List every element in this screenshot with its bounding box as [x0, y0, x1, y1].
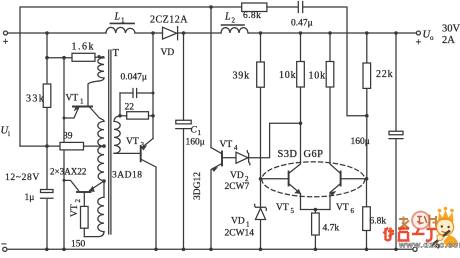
svg-text:VT: VT [70, 204, 80, 217]
transistor VT1 emitter lead with arrow [64, 108, 79, 118]
watermark mascot arm and stick [432, 231, 451, 246]
svg-text:1: 1 [246, 221, 250, 229]
svg-text:1: 1 [121, 17, 125, 25]
svg-text:2CW14: 2CW14 [225, 229, 255, 239]
transistor VT5 collector lead [289, 123, 301, 173]
resistor 150 [81, 206, 89, 228]
node 33k bottom / 39 / 1u / top-rail return [45, 144, 49, 148]
svg-text:0.47μ: 0.47μ [291, 19, 313, 29]
transistor VT2 emitter arrow [89, 186, 94, 191]
svg-text:i: i [8, 130, 10, 138]
svg-text:3DG12: 3DG12 [193, 172, 203, 200]
node main rail / C1 [182, 31, 186, 35]
wire 39 node horizontal [20, 145, 60, 147]
svg-text:L: L [224, 12, 231, 23]
label input minus sign [1, 243, 6, 245]
wire top rail left segment [20, 7, 242, 146]
resistor 22 [127, 112, 149, 119]
wire 22 left lead [120, 115, 127, 117]
inductor L2 [221, 28, 248, 33]
node main rail / 160u [394, 31, 398, 35]
node VT6 base / 22k / 6.8k [365, 177, 369, 181]
svg-text:22k: 22k [376, 69, 393, 80]
wire top rail right segment with corner down to node [303, 7, 367, 116]
node 0.47u return / 22k bottom [365, 114, 369, 118]
node main rail / 22k [365, 31, 369, 35]
wire x211 from top rail to VT4 collector [210, 7, 212, 148]
node 33k top / 1.6k branch [45, 56, 49, 60]
wire VT4 base to VD2 [222, 157, 236, 159]
transistor VT4 emitter arrow [212, 167, 217, 171]
svg-text:1μ: 1μ [25, 193, 35, 203]
transistor VT5 bar [288, 172, 290, 186]
wire VD2 cathode to 10k node corner [249, 123, 301, 157]
label 3DG12 rotated [193, 172, 203, 200]
wire VT5 base [261, 178, 289, 180]
svg-text:+: + [416, 38, 422, 49]
node main rail / 33k branch [45, 31, 49, 35]
capacitor 0.47u plates [298, 2, 302, 13]
svg-text:VT: VT [126, 137, 139, 147]
wire winding bottom hook to 150 bottom [84, 232, 104, 237]
wire common emitters [301, 209, 331, 211]
transistor VT3 emitter lead [142, 139, 153, 148]
transistor VT1 bar [73, 106, 92, 108]
resistor 6.8k bottom with leads [366, 179, 368, 249]
inductor L2 core bar [222, 24, 245, 26]
transistor VT3 emitter arrow [142, 145, 147, 150]
resistor 1.6k [72, 53, 95, 61]
svg-text:5: 5 [291, 207, 295, 215]
svg-text:33k: 33k [26, 94, 45, 105]
svg-text:10k: 10k [279, 70, 296, 81]
transistor VT2 bar [77, 191, 91, 193]
resistor 10k second with leads [329, 33, 331, 163]
svg-text:www.dzsc.com: www.dzsc.com [398, 240, 460, 250]
transistor VT4 emitter lead [211, 164, 222, 249]
resistor 10k first with leads [300, 33, 302, 123]
transistor VT4 collector lead [211, 148, 222, 154]
transistor VT1 collector lead [90, 108, 104, 122]
node main rail / 10k second [328, 31, 332, 35]
svg-text:160μ: 160μ [186, 138, 205, 148]
svg-text:VT: VT [276, 203, 289, 213]
wire main input rail y33 left [7, 32, 106, 34]
svg-text:G6P: G6P [304, 149, 324, 160]
watermark pink ring with char zhao [412, 212, 429, 229]
transistor VT3 collector lead [142, 160, 157, 249]
svg-text:VD: VD [161, 48, 175, 58]
transistor VT1 emitter arrow [74, 106, 79, 111]
svg-text:150: 150 [71, 240, 86, 250]
wire bottom rail [7, 248, 413, 250]
wire x153 vertical main rail to VT3 emitter [152, 33, 154, 139]
transistor VT5 emitter lead [289, 184, 301, 210]
node 22 right / 0.047u / VT3 emitter [151, 114, 155, 118]
svg-text:2: 2 [232, 17, 236, 25]
svg-text:4: 4 [234, 144, 238, 152]
wire L1 to diode [135, 32, 163, 34]
svg-text:6: 6 [351, 207, 355, 215]
wire 39 right lead to winding tap [84, 145, 105, 147]
transistor VT2 emitter lead from winding [90, 181, 105, 191]
wire L2 to output terminal [248, 32, 416, 34]
svg-text:2A: 2A [442, 35, 455, 46]
svg-text:1: 1 [198, 129, 202, 137]
inductor L1 [106, 27, 135, 33]
transformer T primary middle winding [98, 121, 104, 180]
svg-text:10k: 10k [309, 71, 326, 82]
svg-text:+: + [3, 37, 9, 48]
node bottom rail / 160u [394, 248, 398, 252]
wire secondary top hook to 22 left node [114, 116, 120, 122]
svg-text:39k: 39k [233, 71, 250, 82]
node bottom rail / 4.7k [314, 248, 318, 252]
transistor VT5 emitter arrow [295, 189, 301, 193]
node bottom rail / VT4 emitter [209, 248, 213, 252]
svg-text:2CW7: 2CW7 [225, 182, 250, 192]
node top rail / VT4 collector [209, 5, 213, 9]
watermark mascot body [444, 235, 459, 248]
svg-text:L: L [114, 12, 121, 23]
svg-text:T: T [113, 48, 120, 59]
node bottom rail / x64 rail [62, 248, 66, 252]
capacitor C1 plates [176, 120, 191, 128]
node VT5 base / 39k / VD1 [259, 177, 263, 181]
wire VT6 base [341, 178, 367, 180]
node VT1 emitter / x64 rail [63, 117, 66, 120]
svg-text:6.8k: 6.8k [243, 11, 261, 21]
terminal input plus [4, 31, 8, 35]
wire x64 vertical (VT1 base rail / VT2 collector rail) [63, 58, 65, 249]
node bottom rail / VD1 [259, 248, 263, 252]
capacitor 0.047u plates [133, 89, 137, 98]
watermark red characters weiku yixia [384, 228, 437, 241]
svg-text:1: 1 [80, 98, 84, 106]
wire top rail mid segment [267, 6, 298, 8]
transformer core lines [109, 50, 111, 234]
inductor L1 core bar [110, 22, 134, 24]
node 22 left / 0.047u / secondary top [118, 114, 122, 118]
svg-text:3AD18: 3AD18 [112, 171, 142, 181]
capacitor 160u right plates [389, 131, 403, 138]
svg-text:VD: VD [231, 217, 245, 227]
svg-text:VD: VD [230, 171, 244, 181]
transistor VT6 bar [340, 172, 342, 186]
svg-text:160μ: 160μ [351, 137, 370, 147]
watermark mascot crown [438, 210, 454, 221]
watermark brown-orange char wo [399, 217, 409, 231]
transformer T primary lower winding [98, 197, 104, 231]
svg-text:1.6k: 1.6k [72, 42, 96, 53]
node 1.6k left / x64 rail [62, 56, 66, 60]
wire 22 right lead [149, 115, 154, 117]
svg-text:12~28V: 12~28V [5, 172, 40, 183]
node 1.6k right / feedback winding top [98, 55, 101, 58]
wire 1.6k right to winding top [95, 57, 104, 58]
svg-text:6.8k: 6.8k [370, 217, 387, 227]
watermark group bottom right [384, 207, 460, 250]
wire 22 left node up to 0.047 [119, 93, 121, 116]
resistor 39k with leads [260, 33, 262, 179]
svg-text:30V: 30V [442, 24, 460, 35]
terminal input minus [3, 247, 7, 251]
terminal output minus [413, 247, 417, 251]
terminal output plus [416, 31, 420, 35]
svg-text:39: 39 [63, 132, 73, 142]
node common emitters / 4.7k [314, 208, 318, 212]
resistor 39 [60, 142, 84, 150]
wire winding to VT2 region [103, 181, 105, 198]
wire secondary bottom to VT3 base [114, 152, 140, 154]
transistor VT4 bar [221, 152, 223, 166]
node main rail / 39k [259, 31, 263, 35]
wire C1 branch [183, 33, 185, 249]
node bottom rail / VT3 collector [154, 248, 158, 252]
svg-text:3: 3 [141, 141, 145, 149]
transistor VT6 collector lead [330, 163, 341, 174]
node VD2 cathode / 10k first / VT5 collector [299, 122, 303, 126]
node VT2 collector / x64 rail [63, 179, 66, 182]
svg-text:2CZ12A: 2CZ12A [150, 14, 188, 25]
node bottom rail / C1 [182, 248, 186, 252]
diode VD2 zener 2CW7 [236, 151, 250, 165]
wire 0.047 left lead [120, 92, 133, 94]
wire 150 bottom lead [83, 228, 85, 236]
resistor 22k with leads [366, 33, 368, 179]
svg-text:0.047μ: 0.047μ [121, 73, 147, 83]
diode VD 2CZ12A [163, 27, 178, 40]
transistor VT2 base lead to 150 [83, 193, 85, 207]
transistor VT6 emitter arrow [330, 191, 336, 195]
svg-text:4.7k: 4.7k [323, 224, 340, 234]
transformer T primary upper winding [98, 58, 104, 78]
node main rail / 10k first [299, 31, 303, 35]
label VT2 rotated [70, 199, 82, 218]
resistor 33k [43, 84, 51, 107]
svg-text:22: 22 [125, 103, 135, 113]
svg-text:o: o [430, 34, 434, 42]
node 0.047u right lead tee [152, 92, 155, 95]
node VT2 emitter / primary winding tap [102, 179, 106, 183]
wire winding hook to VT1 base lead [88, 78, 104, 106]
watermark brown-orange char pian [430, 215, 437, 228]
svg-text:C: C [191, 126, 198, 136]
transistor VT2 collector lead from x64 [64, 180, 79, 190]
capacitor 1u plates [41, 190, 54, 199]
node main rail / VT3 emitter branch [151, 31, 155, 35]
resistor 6.8k (top) [242, 3, 267, 12]
dashed ellipse S3D G6P package [262, 162, 365, 197]
transistor VT6 emitter lead [330, 184, 341, 210]
wire diode to L2 (crosses x211 line) [178, 32, 221, 34]
node 39 right / primary winding tap [102, 144, 106, 148]
node bottom rail / 6.8k [365, 248, 369, 252]
node bottom rail / 1u [45, 248, 49, 252]
wire 0.047 right lead [137, 92, 153, 94]
wire node47 to 1.6k branch [47, 57, 72, 59]
svg-text:VT: VT [220, 140, 233, 150]
resistor 4.7k with leads [314, 210, 316, 249]
wire x396 vertical with 160u cap [395, 33, 397, 249]
svg-text:VT: VT [336, 203, 349, 213]
wire x47 branch: main rail down to 33k and node [46, 33, 48, 249]
transistor VT3 bar [140, 146, 142, 161]
transformer T secondary winding (right) [114, 121, 120, 153]
svg-text:VT: VT [66, 94, 79, 104]
svg-text:2×3AX22: 2×3AX22 [50, 167, 87, 177]
zener VD1 2CW14 [255, 179, 267, 249]
svg-text:S3D: S3D [278, 149, 298, 160]
watermark mascot head [436, 218, 453, 235]
svg-text:2: 2 [74, 199, 82, 203]
